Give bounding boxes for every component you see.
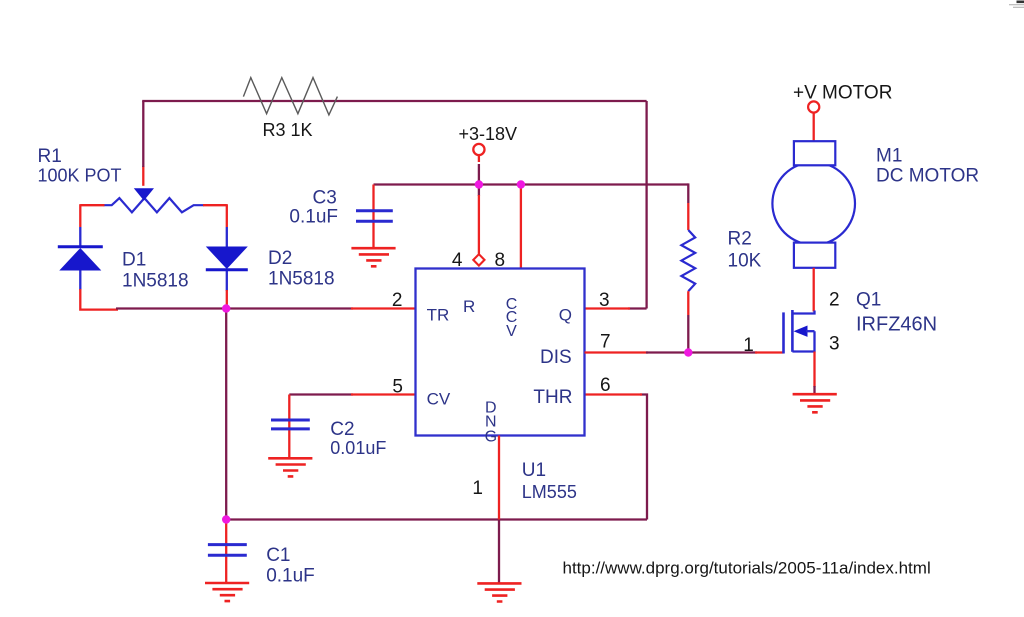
svg-text:DC MOTOR: DC MOTOR [876,165,979,186]
svg-text:7: 7 [600,332,611,353]
resistor R2 zigzag [681,230,695,291]
svg-text:+V MOTOR: +V MOTOR [793,83,892,104]
svg-text:5: 5 [392,377,403,398]
wire: pot right lead red [203,204,227,206]
svg-text:DIS: DIS [540,347,572,368]
pin 6 THR red stub [585,393,643,395]
wire: supply net horizontal [374,183,689,185]
motor M1 body circle [772,162,855,245]
svg-text:U1: U1 [522,460,546,481]
wire: red into R2 top [687,203,689,230]
pin 2 TR red stub [351,307,416,309]
wire: DIS to gate maroon [646,351,757,353]
corner artifact [1017,0,1024,3]
wire: right branch red down [226,204,228,227]
svg-text:http://www.dprg.org/tutorials/: http://www.dprg.org/tutorials/2005-11a/i… [563,559,931,578]
svg-text:1N5818: 1N5818 [268,269,335,290]
potentiometer R1 zigzag [104,198,204,212]
wire: pot wiper vertical maroon up to top net [142,101,144,167]
IC U1 555 box [416,269,585,436]
svg-text:LM555: LM555 [522,482,577,502]
transistor Q1 body arrow [794,326,808,337]
svg-text:D2: D2 [268,248,292,269]
svg-text:CV: CV [427,390,451,409]
wire: pot wiper vertical red segment [142,166,144,186]
svg-text:C2: C2 [330,419,354,440]
potentiometer R1 wiper arrow [134,188,154,200]
svg-text:TR: TR [427,305,450,324]
svg-text:G: G [485,429,497,446]
wire: red into MOSFET gate [755,351,784,353]
svg-text:IRFZ46N: IRFZ46N [856,313,937,335]
wire: red motor to drain [813,268,815,312]
wire: red below D2 [226,290,228,309]
svg-text:1N5818: 1N5818 [122,270,189,291]
pin 1 GND red drop [498,436,500,520]
wire: TR net horizontal maroon [116,307,353,309]
diode D2 leads blue [226,227,228,291]
svg-text:R2: R2 [728,229,752,250]
wire: red drop to pin 8 [520,185,522,269]
svg-text:C1: C1 [266,545,290,566]
svg-text:Q1: Q1 [856,289,881,310]
motor M1 bottom brush block [794,243,835,268]
motor M1 top brush block [794,141,835,165]
wire: THR vertical maroon [640,395,647,520]
wire: source maroon tail [813,386,815,394]
svg-text:0.01uF: 0.01uF [330,438,386,458]
svg-text:100K POT: 100K POT [38,165,122,185]
transistor Q1 channel bar [791,310,794,352]
svg-text:THR: THR [533,387,572,408]
wire: red to motor top [813,113,815,142]
svg-text:10K: 10K [728,250,762,271]
svg-text:Q: Q [559,305,572,324]
capacitor C3 lead red [372,185,374,248]
svg-text:3: 3 [599,290,610,311]
pin 3 Q red stub [585,307,631,309]
svg-text:2: 2 [392,290,403,311]
capacitor C2 plates [271,420,310,429]
svg-text:3: 3 [829,334,840,355]
svg-text:0.1uF: 0.1uF [266,566,315,587]
resistor R3 (black zigzag over wire) [243,78,337,115]
wire: red below D1 [80,289,118,310]
capacitor C2 lead red [288,395,290,458]
wire: supply dashed drop [478,156,480,162]
pin 5 CV red stub [351,393,416,395]
svg-text:8: 8 [495,250,506,271]
pin 7 DIS red stub [585,351,649,353]
svg-text:1: 1 [472,478,483,499]
wire: red below R2 [687,291,689,315]
ground (C1) [205,583,249,601]
wire: pot left lead red [80,204,104,206]
wire: vertical maroon to C1 junction [225,309,227,520]
ground (C2) [268,458,312,476]
motor terminal circle [808,101,819,112]
svg-text:4: 4 [452,250,463,271]
junction dot (TR net) [222,304,230,312]
diode D1 (pointing up) [58,245,103,248]
wire: top net vertical down to Q pin [645,101,647,309]
wire: left branch red down [79,204,81,227]
wire: red drop to pin 4 diamond [478,185,480,197]
supply terminal circle [473,144,484,155]
svg-text:R3 1K: R3 1K [263,120,313,140]
ground (Q1 source) [793,394,837,412]
svg-text:R1: R1 [38,146,62,167]
wire: maroon to DIS junction [687,315,689,353]
wire: top net horizontal (R3 net) [142,100,646,102]
diode D2 (pointing down) [206,247,248,270]
svg-text:0.1uF: 0.1uF [289,206,338,227]
svg-text:2: 2 [829,290,840,311]
ground (C3) [351,248,395,266]
wire: CV net maroon [289,393,353,395]
capacitor C1 plates [208,545,247,556]
junction dot (DIS net) [684,348,692,356]
wire: maroon to ground [498,520,500,584]
junction dot (supply/pin8) [517,180,525,188]
svg-text:R: R [463,297,475,316]
svg-text:D1: D1 [122,249,146,270]
wire: source red to ground [813,352,815,388]
capacitor C3 plates [356,211,393,222]
transistor Q1 source stub [792,331,814,352]
svg-text:6: 6 [600,375,611,396]
diode D1 anode/cathode leads blue [79,227,81,290]
transistor Q1 gate bar [782,312,785,353]
wire: THR bottom net horizontal [226,518,647,520]
wire: maroon top of R2 branch [687,183,689,203]
svg-text:+3-18V: +3-18V [459,124,518,144]
svg-text:M1: M1 [876,146,902,167]
ground (pin 1) [477,583,521,601]
svg-text:1: 1 [743,335,754,356]
capacitor C1 lead red [225,520,227,583]
wire: maroon into Q pin corner [628,307,647,309]
junction dot (supply/pin4) [475,180,483,188]
junction dot (C1 net) [222,515,230,523]
pin 4 diamond terminal [473,254,484,265]
svg-text:V: V [506,323,517,340]
transistor Q1 drain stub [792,311,814,314]
